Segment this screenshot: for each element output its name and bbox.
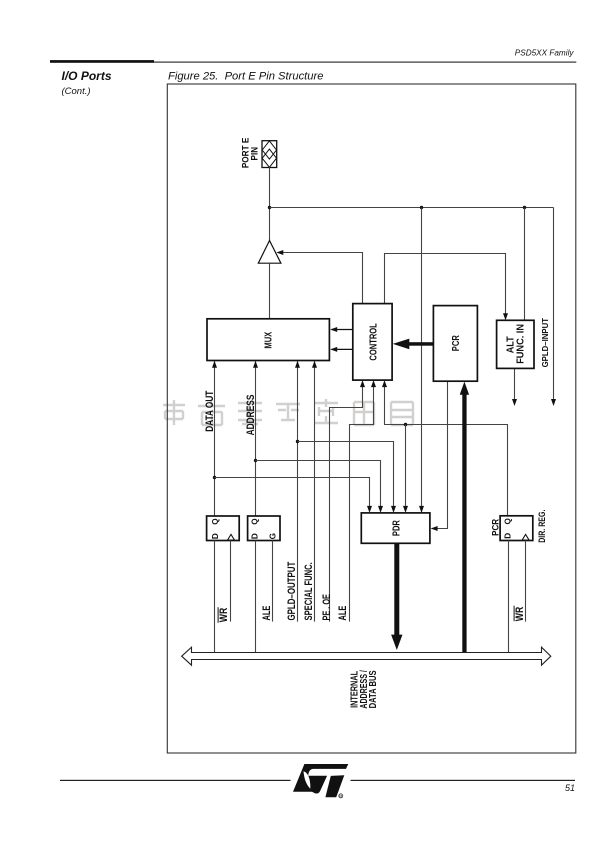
- wire buffer output to MUX: [269, 263, 271, 319]
- label ADDRESS: [245, 395, 257, 436]
- label DATA OUT: [204, 390, 216, 431]
- svg-text:Q: Q: [251, 518, 260, 525]
- MUX block: [207, 319, 329, 361]
- wire branch to PDR pin 1: [215, 478, 370, 508]
- wire junction to PDR pin 5: [421, 208, 423, 513]
- wire latch2 G input: [272, 541, 274, 622]
- wire GPLD-INPUT: [553, 208, 555, 401]
- wire PCR bottom to PDR right: [432, 381, 448, 528]
- svg-text:DATA BUS: DATA BUS: [368, 670, 379, 708]
- svg-text:ALE: ALE: [261, 606, 273, 621]
- wire branch to PDR pin 2: [256, 461, 381, 508]
- ALE latch: [248, 516, 280, 541]
- svg-text:PCR: PCR: [490, 519, 501, 536]
- wire pin to buffer: [269, 168, 271, 241]
- ST logo: [293, 764, 348, 797]
- arrow CONTROL to MUX upper: [332, 329, 353, 331]
- svg-text:GPLD–OUTPUT: GPLD–OUTPUT: [286, 561, 298, 620]
- wire DATA OUT latch1 Q to MUX: [214, 362, 216, 517]
- wire ADDRESS latch2 Q to MUX: [255, 362, 257, 517]
- wire dir reg clock: [525, 541, 527, 622]
- header thin rule: [154, 62, 576, 63]
- thick arrow PCR to CONTROL: [409, 342, 434, 346]
- svg-text:Q: Q: [503, 517, 512, 524]
- dir reg clock wedge: [522, 534, 529, 540]
- svg-text:CONTROL: CONTROL: [368, 323, 379, 360]
- svg-text:ADDRESS: ADDRESS: [245, 395, 257, 436]
- junction node pin wire: [268, 206, 271, 209]
- wire dir reg D to bus: [508, 541, 510, 654]
- WR latch clock wedge: [228, 534, 235, 540]
- label ALE latch2: [261, 606, 273, 621]
- label GPLD-INPUT: [540, 317, 550, 367]
- svg-text:(Cont.): (Cont.): [62, 86, 91, 97]
- svg-text:WR: WR: [514, 607, 526, 622]
- svg-text:D: D: [503, 533, 512, 539]
- CONTROL block: [353, 304, 392, 381]
- label PCR dir reg: [490, 519, 501, 536]
- wire DIR REG Q to CONTROL pin 3: [385, 386, 508, 516]
- svg-text:D: D: [211, 533, 220, 539]
- figure frame: [167, 84, 576, 753]
- svg-text:FUNC. IN: FUNC. IN: [516, 324, 527, 364]
- thick arrow PDR to bus: [394, 543, 399, 636]
- ST logo registered mark: [339, 794, 343, 798]
- watermark: [163, 399, 413, 425]
- wire SPECIAL FUNC to MUX: [314, 362, 316, 622]
- wire branch to PDR pin 3: [298, 442, 394, 508]
- wire top horizontal: [270, 207, 554, 209]
- svg-text:PE . OE: PE . OE: [321, 594, 333, 621]
- wire to ALT FUNC IN plain: [524, 208, 526, 321]
- junction ADDRESS: [254, 459, 257, 462]
- svg-text:SPECIAL FUNC.: SPECIAL FUNC.: [303, 562, 315, 620]
- label WR latch1: [218, 608, 230, 623]
- svg-text:MUX: MUX: [264, 332, 275, 349]
- svg-text:DIR. REG.: DIR. REG.: [537, 510, 548, 543]
- svg-text:D: D: [251, 533, 260, 539]
- port pin PE symbol: [262, 141, 277, 168]
- WR latch: [207, 516, 240, 541]
- wire ALE to CONTROL pin 2: [350, 386, 374, 622]
- wire branch to PDR pin 4: [405, 425, 407, 508]
- PDR block: [361, 513, 430, 543]
- svg-text:G: G: [268, 533, 277, 539]
- svg-text:Q: Q: [211, 518, 220, 525]
- svg-text:PDR: PDR: [391, 520, 402, 537]
- svg-text:WR: WR: [218, 608, 230, 623]
- PCR block: [433, 306, 477, 382]
- wire CONTROL top to ALT FUNC IN: [385, 254, 506, 316]
- junction GPLD-OUTPUT: [296, 440, 299, 443]
- wire GPLD-OUTPUT to MUX: [297, 362, 299, 622]
- ALT FUNC IN block: [497, 320, 534, 368]
- svg-text:ALE: ALE: [337, 606, 349, 621]
- svg-text:PCR: PCR: [451, 335, 462, 352]
- svg-text:Figure 25. Port E Pin Structu: Figure 25. Port E Pin Structure: [168, 70, 323, 82]
- thick arrow bus to PCR: [462, 394, 466, 654]
- svg-text:R: R: [339, 794, 342, 799]
- footer rule right: [351, 780, 576, 781]
- label GPLD-OUTPUT: [286, 561, 298, 620]
- junction node x421: [420, 206, 423, 209]
- header thick rule: [50, 60, 154, 63]
- label SPECIAL FUNC: [303, 562, 315, 620]
- label ALE mid: [337, 606, 349, 621]
- svg-text:PIN: PIN: [249, 147, 260, 161]
- svg-text:I/O Ports: I/O Ports: [62, 69, 112, 83]
- wire ALT FUNC IN output: [514, 368, 516, 400]
- wire PE.OE to CONTROL pin 1: [330, 386, 363, 622]
- junction node x524: [523, 206, 526, 209]
- svg-text:PSD5XX Family: PSD5XX Family: [515, 48, 575, 57]
- tri-state buffer: [258, 241, 281, 264]
- wire latch2 D to bus: [255, 541, 257, 654]
- svg-text:GPLD–INPUT: GPLD–INPUT: [540, 317, 550, 367]
- footer rule left: [60, 780, 291, 781]
- label PE.OE: [321, 594, 333, 621]
- wire buffer enable from CONTROL: [278, 253, 363, 304]
- wire latch1 D to bus: [214, 541, 216, 654]
- label PORT E PIN: [240, 137, 251, 168]
- label DIR. REG.: [537, 510, 548, 543]
- direction register: [500, 516, 533, 541]
- internal address data bus: [182, 647, 551, 665]
- arrow CONTROL to MUX lower: [332, 348, 353, 350]
- svg-text:51: 51: [565, 783, 575, 793]
- label WR dir reg: [514, 607, 526, 622]
- svg-text:DATA OUT: DATA OUT: [204, 390, 216, 431]
- label INTERNAL ADDRESS DATA BUS: [350, 671, 361, 708]
- junction DATA OUT: [213, 476, 216, 479]
- junction control wire: [404, 423, 407, 426]
- wire latch1 clock: [230, 541, 232, 622]
